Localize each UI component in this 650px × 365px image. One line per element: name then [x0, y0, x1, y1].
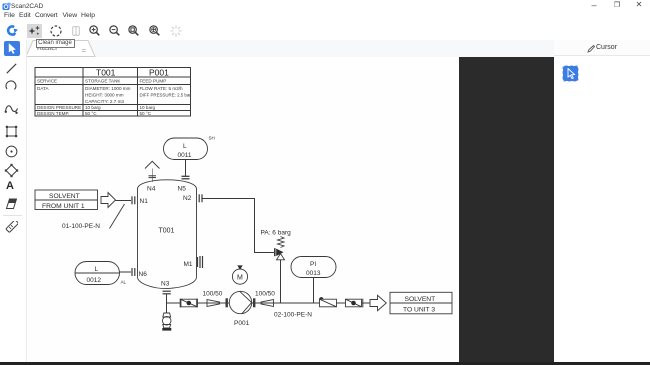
sidebar separator: [3, 215, 22, 216]
svg-text:N5: N5: [178, 186, 187, 193]
vent arrow at N4: [145, 161, 160, 182]
measure tool: [5, 221, 18, 234]
bezier tool: [4, 103, 19, 116]
svg-text:DIFF PRESSURE: 2.5 bar: DIFF PRESSURE: 2.5 bar: [140, 93, 192, 98]
svg-text:FROM UNIT 1: FROM UNIT 1: [42, 203, 85, 210]
nozzle N1 flange: [132, 196, 135, 204]
tab bar: [26, 40, 554, 58]
reducer discharge: [261, 300, 274, 307]
svg-text:T001: T001: [159, 228, 175, 235]
svg-text:N3: N3: [161, 281, 170, 288]
svg-text:TO UNIT 3: TO UNIT 3: [403, 307, 435, 314]
svg-text:P001: P001: [149, 68, 169, 78]
tooltip Clean image: [36, 39, 75, 48]
svg-text:100/50: 100/50: [255, 291, 275, 298]
spinner icon (disabled): [170, 25, 182, 37]
menu bar: [0, 11, 650, 19]
svg-text:T001: T001: [96, 68, 116, 78]
wire N2 to PSV: [202, 198, 274, 252]
svg-text:02-100-PE-N: 02-100-PE-N: [274, 312, 312, 319]
cursor tool button (active): [563, 66, 578, 81]
svg-text:DATA: DATA: [37, 86, 50, 91]
svg-text:0013: 0013: [306, 270, 321, 277]
canvas: dark background area: [459, 57, 554, 365]
svg-text:STORAGE TANK: STORAGE TANK: [85, 79, 121, 84]
svg-text:AL: AL: [121, 280, 127, 285]
svg-text:0012: 0012: [87, 277, 102, 284]
instrument L-0012: [75, 262, 120, 285]
right panel: [554, 40, 650, 362]
zoom window icon: [128, 25, 139, 36]
leader line: [110, 204, 125, 229]
reducer suction: [207, 300, 220, 307]
wire inlet to N1: [116, 199, 132, 201]
svg-text:50 °C: 50 °C: [140, 111, 152, 116]
outlet flow arrow: [370, 295, 386, 310]
nozzle N3 flange: [163, 291, 171, 294]
toolbar: [0, 20, 650, 40]
svg-text:10 barg: 10 barg: [85, 105, 101, 110]
data table: [35, 68, 191, 117]
text tool: [6, 180, 19, 192]
instrument PI-0013: [291, 257, 336, 278]
lasso circle icon: [50, 25, 62, 37]
svg-text:PA: 6 barg: PA: 6 barg: [261, 230, 292, 237]
svg-text:PI: PI: [310, 261, 316, 268]
drain valve: [162, 313, 171, 331]
nozzle N5 flange: [182, 176, 190, 179]
svg-text:100/50: 100/50: [203, 291, 223, 298]
manway M1 flange: [198, 256, 203, 268]
rectangle tool: [5, 125, 18, 138]
pump P001: [227, 291, 255, 313]
svg-text:N2: N2: [183, 195, 192, 202]
canvas: white image area: [27, 57, 459, 362]
svg-text:L: L: [183, 143, 187, 150]
wire PI-0013 down to pipe: [313, 278, 315, 304]
table body text: [37, 79, 191, 117]
convert icon (blue): [6, 25, 19, 38]
window controls: [588, 0, 600, 10]
inlet box SOLVENT FROM UNIT 1: [35, 190, 98, 210]
PSV spring: [278, 237, 285, 248]
clean image button (pressed): [27, 24, 42, 38]
svg-text:L: L: [95, 266, 99, 273]
main discharge pipe: [167, 302, 370, 304]
zoom out icon: [109, 25, 120, 36]
svg-text:CAPACITY: 2.7 m3: CAPACITY: 2.7 m3: [85, 99, 124, 104]
instrument L-0011: [164, 138, 208, 160]
circle tool: [5, 145, 18, 158]
svg-text:HEIGHT: 3000 mm: HEIGHT: 3000 mm: [85, 93, 124, 98]
eraser tool: [5, 198, 18, 210]
relief valve PSV: [275, 248, 285, 260]
svg-text:DESIGN TEMP.: DESIGN TEMP.: [37, 111, 69, 116]
svg-text:SERVICE: SERVICE: [37, 79, 57, 84]
svg-text:N1: N1: [140, 198, 149, 205]
svg-text:M: M: [237, 275, 243, 282]
svg-text:M1: M1: [184, 261, 193, 268]
line tool: [5, 62, 18, 75]
valve V2: [346, 299, 363, 308]
svg-text:N4: N4: [147, 186, 156, 193]
valve V1 (with actuator dot): [319, 297, 336, 307]
svg-text:01-100-PE-N: 01-100-PE-N: [62, 223, 100, 230]
bottom taskbar strip: [0, 362, 650, 365]
table header T001: [96, 68, 169, 78]
wire PSV outlet down to pipe: [280, 260, 282, 303]
app logo: [2, 2, 11, 11]
svg-text:SOLVENT: SOLVENT: [49, 193, 80, 200]
svg-text:P001: P001: [234, 320, 250, 327]
svg-text:DESIGN PRESSURE: DESIGN PRESSURE: [37, 105, 81, 110]
svg-text:DIAMETER: 1000 mm: DIAMETER: 1000 mm: [85, 86, 131, 91]
left sidebar: [0, 40, 27, 362]
inline instrument (sight glass): [180, 299, 197, 308]
svg-text:10 barg: 10 barg: [140, 105, 156, 110]
motor M: [232, 265, 247, 284]
svg-text:0011: 0011: [178, 152, 192, 159]
title bar: [0, 0, 650, 11]
polygon tool: [4, 163, 19, 178]
disabled flip icon: [72, 26, 80, 36]
wire L-0012 to N6: [120, 271, 132, 273]
svg-text:SH: SH: [209, 136, 215, 141]
wire N3 down: [166, 294, 168, 313]
outlet box SOLVENT TO UNIT 3: [390, 292, 452, 314]
zoom in icon: [89, 25, 100, 36]
selection tool (active): [4, 41, 20, 57]
inlet flow arrow: [101, 193, 116, 208]
nozzle N2 flange: [199, 194, 202, 202]
svg-text:FEED PUMP: FEED PUMP: [140, 79, 167, 84]
nozzle N6 flange: [132, 268, 135, 276]
svg-text:SOLVENT: SOLVENT: [405, 296, 436, 303]
wire L-0011 to N5: [185, 160, 187, 177]
svg-text:N6: N6: [139, 271, 148, 278]
svg-text:50 °C: 50 °C: [85, 111, 97, 116]
raster tab: [24, 40, 99, 57]
arc tool: [5, 79, 18, 92]
zoom extents icon: [149, 25, 160, 36]
svg-text:FLOW RATE: 5 m3/h: FLOW RATE: 5 m3/h: [140, 86, 183, 91]
tank T001 vessel: [138, 180, 197, 289]
